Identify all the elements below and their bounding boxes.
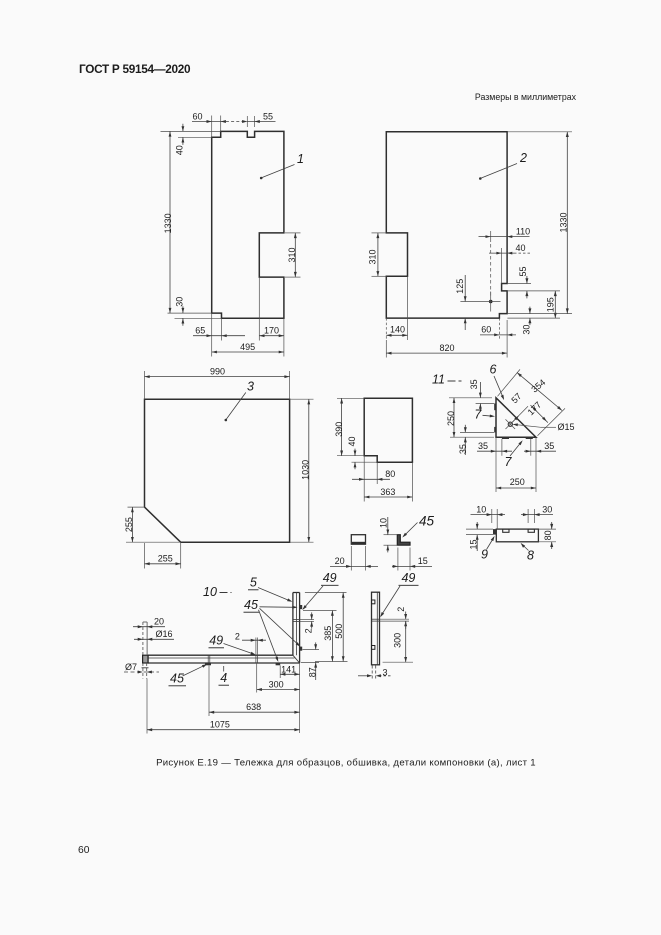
svg-text:35: 35: [469, 379, 479, 389]
svg-text:55: 55: [518, 266, 528, 276]
dim 250 bottom: [496, 487, 536, 489]
svg-text:2: 2: [235, 632, 240, 642]
dim 87 extension lines: [302, 649, 319, 651]
dim 80 bar: [551, 522, 553, 529]
svg-text:20: 20: [154, 617, 164, 627]
dim 60 part2: [480, 334, 516, 336]
part 8 notch left: [503, 529, 509, 532]
svg-text:255: 255: [124, 517, 134, 532]
dim 141 extension lines: [279, 666, 281, 679]
dim 60 part2 extension line: [498, 318, 500, 340]
dim 60 part1 extension lines: [211, 116, 213, 138]
dim d16 rod: [134, 638, 174, 640]
dim 638: [209, 711, 300, 713]
dim 390: [341, 398, 343, 455]
dim 20 pieces extension lines: [350, 546, 352, 571]
dim 170 part1 extension lines: [258, 277, 260, 340]
svg-text:300: 300: [269, 679, 284, 689]
svg-text:638: 638: [246, 702, 261, 712]
svg-text:11: 11: [432, 373, 445, 387]
bracket triangle outline: [496, 398, 536, 437]
svg-text:7: 7: [505, 455, 513, 469]
svg-text:300: 300: [393, 633, 403, 648]
dim 10 bar: [471, 514, 506, 516]
dim 55 part2: [526, 276, 528, 284]
dim 255 horizontal part3 extension lines: [144, 543, 146, 569]
dim 55 part1 extension ticks: [246, 116, 248, 127]
svg-text:250: 250: [446, 411, 456, 426]
dim 140 part2: [386, 334, 407, 336]
dim 310 part1: [294, 233, 296, 277]
svg-text:1075: 1075: [210, 720, 230, 730]
svg-text:1030: 1030: [300, 460, 310, 480]
frame tab upper on vertical bar: [300, 605, 303, 609]
svg-text:80: 80: [543, 530, 553, 540]
svg-text:40: 40: [175, 145, 185, 155]
svg-text:49: 49: [401, 571, 415, 585]
svg-text:4: 4: [220, 671, 227, 685]
dim 87: [315, 642, 317, 649]
dim 363: [364, 496, 412, 498]
svg-text:Размеры в миллиметрах: Размеры в миллиметрах: [475, 92, 577, 102]
dim 15 bar: [476, 522, 478, 529]
svg-text:Ø16: Ø16: [156, 629, 173, 639]
dim 35 bottom-left extension lines: [495, 437, 497, 492]
frame slot in horizontal bar at 638: [207, 655, 209, 663]
dim 35 top-left extension line: [476, 403, 495, 405]
dim 820 part2 extension lines: [385, 340, 387, 358]
label 49 left leader: [224, 644, 255, 655]
clip angle piece: [397, 535, 410, 546]
svg-text:3: 3: [383, 667, 388, 677]
svg-text:65: 65: [195, 326, 205, 336]
svg-text:170: 170: [264, 326, 279, 336]
label 49 top leader: [303, 586, 323, 609]
svg-text:30: 30: [542, 504, 552, 514]
bracket left tab upper: [494, 404, 496, 411]
label 4 leader: [223, 666, 225, 672]
svg-text:255: 255: [158, 554, 173, 564]
dim 125 part2: [464, 275, 466, 302]
dim 40 part2 extension line: [501, 248, 503, 284]
frame under tab right: [276, 663, 281, 665]
svg-text:40: 40: [347, 436, 357, 446]
side bar hidden lines below: [371, 666, 373, 681]
svg-text:7: 7: [474, 407, 482, 421]
label 8 leader: [522, 544, 529, 551]
dim 40 part1: [182, 124, 184, 132]
svg-text:6: 6: [490, 363, 497, 377]
dim 65 part1: [193, 335, 245, 337]
dim 30 part2: [529, 307, 531, 314]
dim 1330 part1: [169, 131, 171, 313]
svg-text:60: 60: [192, 111, 202, 121]
frame left end cap: [143, 655, 148, 663]
frame horizontal bar: [148, 655, 300, 663]
dim 390 extension lines: [337, 397, 364, 399]
dim 35 bottom-left: [477, 450, 512, 452]
dim 300: [257, 689, 300, 691]
svg-text:45: 45: [170, 672, 184, 686]
svg-text:1330: 1330: [558, 212, 568, 232]
dim 2 frame extension lines: [255, 638, 257, 656]
dim 170 part1: [259, 335, 284, 337]
dim 300 extension line: [256, 663, 258, 693]
label 49 right leader: [381, 586, 400, 616]
dim 141: [280, 673, 299, 675]
dim 2 side bar: [405, 612, 407, 620]
svg-text:310: 310: [287, 247, 297, 262]
svg-text:ГОСТ Р 59154—2020: ГОСТ Р 59154—2020: [79, 62, 191, 76]
label 9 leader: [487, 538, 494, 550]
part 1 leader: [262, 165, 295, 178]
svg-text:30: 30: [522, 325, 532, 335]
frame slot in vertical bar: [293, 619, 300, 621]
dim 40 extension line: [352, 461, 378, 463]
svg-text:1330: 1330: [163, 213, 173, 233]
dim 385: [331, 611, 333, 662]
frame vertical bar: [293, 593, 300, 664]
dim 385 extension lines: [303, 610, 337, 612]
frame under tab left: [205, 663, 211, 665]
svg-text:45: 45: [244, 598, 258, 612]
hidden hole below left end: [142, 663, 144, 679]
dim 638 extension line: [208, 666, 210, 717]
dim 195 part2: [554, 291, 556, 318]
dim 110 part2: [479, 236, 530, 238]
svg-text:49: 49: [209, 634, 223, 648]
dim 250 left: [453, 398, 455, 437]
svg-text:87: 87: [307, 667, 317, 677]
svg-text:3: 3: [247, 380, 254, 394]
dim 57 line: [510, 406, 528, 424]
dim 35 top-left: [479, 382, 481, 398]
dim 1030 part3: [308, 399, 310, 542]
side bar slot: [372, 618, 380, 620]
dim 110 part2 extension tick: [490, 231, 492, 242]
svg-text:49: 49: [323, 571, 337, 585]
svg-text:15: 15: [418, 556, 428, 566]
dim 1030 part3 extension lines: [290, 398, 314, 400]
svg-text:250: 250: [510, 477, 525, 487]
dim 30 part1: [182, 306, 184, 313]
dim 2 side bar extension lines: [380, 618, 410, 620]
hole leader: [514, 424, 542, 427]
svg-text:10: 10: [203, 585, 217, 599]
svg-text:140: 140: [390, 325, 405, 335]
svg-text:9: 9: [481, 548, 488, 562]
svg-text:Ø7: Ø7: [125, 662, 137, 672]
part 3 outline: [145, 399, 290, 542]
svg-text:2: 2: [519, 151, 527, 165]
bracket bottom tab right: [526, 437, 533, 439]
svg-text:125: 125: [455, 279, 465, 294]
svg-text:141: 141: [281, 664, 296, 674]
dim 500 extension line top: [305, 592, 347, 594]
dim 80 extension lines: [363, 456, 365, 484]
dim 1330 part2 extension lines: [507, 131, 572, 133]
label 45 frame leader 3: [259, 610, 278, 661]
dim 80: [352, 478, 390, 480]
part 2 outline: [386, 132, 507, 318]
dim 15 bar extension lines: [466, 528, 493, 530]
part 8 bar outline: [496, 529, 538, 542]
bracket left tab lower: [494, 427, 496, 433]
dim 354: [517, 373, 562, 411]
dim 35 left-lower: [464, 425, 466, 433]
svg-text:45: 45: [419, 514, 435, 529]
svg-text:500: 500: [334, 624, 344, 639]
dim 55 part1: [247, 121, 275, 123]
dim 20 rod: [133, 626, 165, 628]
svg-text:60: 60: [78, 845, 90, 856]
dim 35 left-lower extension line: [460, 431, 494, 433]
svg-text:390: 390: [334, 422, 344, 437]
label 6 leader: [494, 376, 503, 398]
side bar outline: [372, 592, 380, 665]
svg-text:310: 310: [368, 249, 378, 264]
dim 1075 extension line: [146, 679, 148, 734]
part 1 outline: [212, 131, 284, 318]
svg-text:2: 2: [304, 628, 314, 633]
shaped plate outline: [364, 398, 412, 462]
dim 1075: [147, 729, 300, 731]
dim 1330 part2: [566, 132, 568, 314]
dim 310 part2: [377, 233, 379, 276]
bracket hole: [508, 422, 512, 426]
dim 10 bar extension ticks: [491, 509, 493, 523]
dim 60 part1: [192, 121, 221, 123]
dim 495 part1: [212, 351, 284, 353]
dim 255 horizontal part3: [145, 563, 181, 565]
dim 177 line: [531, 405, 548, 423]
dim 35 bottom-right: [524, 450, 556, 452]
label 5 leader: [258, 588, 291, 602]
label 45 left leader: [183, 665, 206, 676]
dim 300 side bar extension line: [383, 661, 413, 663]
part 9 end tab: [493, 529, 496, 535]
bracket hole centerlines: [506, 419, 516, 429]
svg-text:35: 35: [544, 441, 554, 451]
clip plate piece: [351, 535, 365, 545]
dim 310 part2 extension lines: [372, 232, 387, 234]
dim 55 part2 extension lines: [507, 283, 531, 285]
dim 10 pieces extension lines: [384, 534, 398, 536]
side bar tab upper: [372, 600, 375, 604]
svg-text:40: 40: [515, 243, 525, 253]
dim d7 hole: [124, 671, 159, 673]
dim 250 left extension lines: [449, 397, 492, 399]
view label 11 dash: [448, 380, 462, 382]
part 2 hole mark: [489, 300, 493, 304]
dim 990 part3: [145, 376, 290, 378]
dim 30 part1 extension lines: [168, 312, 212, 314]
dim 820 part2: [386, 352, 507, 354]
svg-text:5: 5: [250, 576, 257, 590]
rod above left end: [142, 622, 144, 655]
svg-text:Рисунок Е.19 — Тележка для обр: Рисунок Е.19 — Тележка для образцов, обш…: [156, 758, 536, 769]
label 7 left leader: [483, 414, 493, 417]
dim 300 side bar: [405, 621, 407, 662]
svg-text:385: 385: [323, 626, 333, 641]
dim 363 extension lines: [363, 484, 365, 502]
dim 310 part1 extension lines: [285, 232, 301, 234]
svg-text:820: 820: [439, 343, 454, 353]
label 45 frame leader 2: [260, 608, 300, 645]
dim 2 frame: [242, 639, 266, 641]
dim 15 pieces extension lines: [397, 548, 399, 571]
dim 40 part2: [489, 252, 514, 254]
dim 20 pieces: [330, 565, 378, 567]
dim 10 pieces: [387, 517, 389, 535]
svg-text:1: 1: [297, 152, 304, 166]
label 45 big leader: [404, 523, 418, 537]
dim 40 plate: [354, 449, 356, 456]
dim 15 pieces: [392, 565, 432, 567]
svg-text:195: 195: [546, 297, 556, 312]
frame slot in horizontal bar at 300: [255, 655, 257, 663]
svg-text:20: 20: [335, 556, 345, 566]
dim 2 vertical-bar slot extension lines: [300, 619, 314, 621]
svg-text:35: 35: [478, 441, 488, 451]
part 2 leader: [481, 164, 517, 179]
dim 255 vertical part3 extension lines: [128, 506, 145, 508]
dim 35 bottom-right extension lines: [530, 439, 532, 456]
label 45 frame leader 1: [260, 606, 297, 609]
frame tab lower on vertical bar: [300, 647, 303, 651]
svg-text:30: 30: [175, 297, 185, 307]
svg-text:10: 10: [476, 504, 486, 514]
svg-text:990: 990: [210, 366, 225, 376]
dim 80 bar extension lines: [538, 528, 556, 530]
svg-text:60: 60: [481, 325, 491, 335]
dim 65 part1 extension lines: [211, 313, 213, 356]
view label 10 dash: [220, 592, 232, 594]
dim 30 bar: [521, 514, 553, 516]
side bar tab lower: [372, 646, 375, 650]
svg-text:15: 15: [469, 539, 479, 549]
svg-text:495: 495: [240, 342, 255, 352]
frame corner seam: [293, 655, 300, 663]
svg-text:Ø15: Ø15: [558, 422, 575, 432]
svg-text:10: 10: [379, 518, 389, 528]
dim 255 vertical part3: [131, 507, 133, 542]
svg-text:110: 110: [516, 226, 530, 236]
svg-text:80: 80: [385, 469, 395, 479]
label 7 bottom leader: [510, 442, 522, 456]
dim 3 side bar: [358, 675, 368, 677]
dim 195 part2 extension line: [507, 317, 560, 319]
dim 354 extension lines: [498, 369, 521, 396]
svg-text:55: 55: [263, 111, 273, 121]
part 8 notch right: [528, 529, 534, 532]
dim 990 part3 extension lines: [144, 371, 146, 399]
dim 500: [342, 593, 344, 662]
bracket bottom tab left: [502, 437, 509, 439]
svg-text:363: 363: [380, 487, 395, 497]
svg-text:35: 35: [458, 444, 468, 454]
dim 40 part1 extension lines: [161, 130, 221, 132]
svg-text:2: 2: [396, 607, 406, 612]
dim 2 vertical-bar slot: [311, 612, 313, 619]
part 3 leader: [226, 393, 246, 420]
dim 30 bar extension ticks: [527, 509, 529, 523]
dim 140 part2 extension lines: [385, 318, 387, 340]
